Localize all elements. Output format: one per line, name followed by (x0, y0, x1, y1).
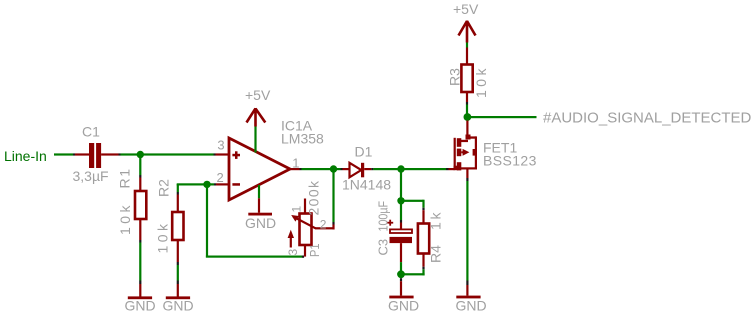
svg-text:#AUDIO_SIGNAL_DETECTED: #AUDIO_SIGNAL_DETECTED (543, 109, 752, 126)
svg-text:R3: R3 (447, 68, 463, 86)
wire op-amp V- to ground (258, 185, 260, 213)
svg-text:+5V: +5V (245, 87, 271, 103)
ground GND (C3/R4) (388, 296, 419, 314)
wire node F to ground (400, 278, 402, 295)
wire +5V to op-amp V+ (254, 127, 256, 153)
node C junction (output tap) (330, 165, 337, 172)
svg-text:GND: GND (163, 298, 194, 314)
supply +5V (R3) (453, 1, 479, 42)
svg-text:GND: GND (245, 215, 276, 231)
ground GND (R2) (163, 296, 194, 313)
svg-text:GND: GND (125, 298, 156, 314)
wire node D down to node E (400, 172, 402, 198)
wire node G to net label (471, 116, 537, 118)
pin 2 lead op-amp (216, 183, 229, 185)
wire node G down to FET drain (466, 121, 468, 139)
wire C3 to node F (400, 243, 402, 271)
node A junction (137, 151, 144, 158)
wire node E down to C3 (400, 204, 402, 229)
svg-text:C3: C3 (376, 239, 391, 256)
svg-text:3,3µF: 3,3µF (73, 168, 109, 184)
node G junction (drain node) (464, 113, 472, 121)
wire +5V to R3 (466, 43, 468, 65)
node B junction (203, 181, 210, 188)
wire feedback node B down and right to P1 pin 3 (206, 186, 304, 258)
node D junction (gate node) (397, 165, 404, 172)
ground GND (FET) (456, 296, 487, 314)
wire FET source to ground (466, 178, 468, 296)
wire node D to FET gate (404, 168, 455, 170)
wire R3 to node G (466, 92, 468, 114)
node #AUDIO_SIGNAL_DETECTED label (543, 109, 752, 126)
wire node A down to R1 (139, 157, 141, 191)
svg-text:1N4148: 1N4148 (342, 177, 391, 193)
wire node C down to P1 wiper (332, 172, 334, 230)
svg-text:R2: R2 (156, 179, 172, 197)
svg-text:R1: R1 (117, 169, 133, 189)
transistor FET1 BSS123 (454, 135, 537, 179)
svg-text:+5V: +5V (453, 1, 479, 17)
svg-text:R4: R4 (428, 245, 444, 263)
node E junction (C3/R4 top) (397, 197, 404, 204)
ground GND (op-amp) (245, 213, 276, 231)
svg-text:10k: 10k (117, 205, 133, 236)
wire D1 cathode to node D (364, 168, 398, 170)
svg-text:1: 1 (290, 206, 304, 213)
potentiometer P1 200k (286, 180, 322, 257)
wire R2 to ground (177, 240, 179, 297)
wire C1 to node A (119, 153, 138, 155)
svg-text:C1: C1 (82, 124, 100, 140)
svg-text:2: 2 (217, 170, 224, 185)
wire Line-In to C1 (54, 153, 89, 155)
resistor R2 (155, 179, 184, 254)
svg-text:D1: D1 (355, 144, 373, 160)
supply +5V (op-amp) (245, 87, 271, 127)
wire R1 to ground (139, 219, 141, 297)
wire node B to op-amp pin 2 (210, 183, 216, 185)
svg-text:P1: P1 (307, 244, 322, 258)
svg-text:2: 2 (320, 218, 327, 232)
svg-text:LM358: LM358 (281, 131, 324, 147)
node F junction (C3/R4 bottom) (397, 270, 405, 278)
svg-text:GND: GND (388, 298, 419, 314)
svg-text:100µF: 100µF (376, 201, 391, 232)
ground GND (R1) (125, 296, 156, 313)
svg-text:3: 3 (217, 138, 224, 153)
resistor R1 (117, 169, 147, 235)
svg-text:Line-In: Line-In (4, 148, 47, 164)
diode D1 1N4148 (342, 144, 391, 193)
svg-text:200k: 200k (306, 180, 322, 216)
wire R4 bottom to node F (404, 254, 425, 276)
op-amp IC1A (217, 118, 325, 201)
resistor R3 (447, 65, 490, 99)
svg-text:10k: 10k (473, 68, 489, 99)
resistor R4 (418, 212, 444, 264)
svg-text:3: 3 (286, 249, 300, 256)
node Line-In label (4, 148, 47, 164)
capacitor C3 100µF polarized (376, 201, 413, 256)
wire node E to R4 top (404, 200, 425, 224)
wire node C to D1 anode (337, 168, 350, 170)
wire pin2 row: R2 to node B (177, 183, 205, 185)
svg-text:GND: GND (456, 298, 487, 314)
capacitor C1 (73, 124, 119, 185)
svg-text:10k: 10k (155, 223, 171, 254)
wire op-amp pin 1 output (290, 168, 331, 170)
wire R2 top from pin2 net (177, 184, 179, 212)
wire node A to op-amp pin 3 (143, 153, 216, 155)
pin 3 lead op-amp (216, 153, 230, 155)
pin 2 lead P1 wiper (315, 218, 335, 232)
svg-text:BSS123: BSS123 (483, 153, 537, 169)
